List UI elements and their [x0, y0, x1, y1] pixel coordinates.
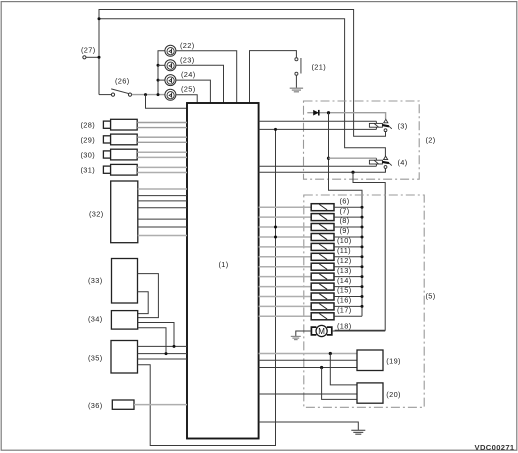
svg-text:(8): (8) — [340, 216, 350, 225]
wire unit33 pin1 to unit34 — [138, 274, 159, 318]
sensor S28 — [103, 119, 137, 130]
solenoid SV12 — [311, 263, 334, 270]
wire solenoid SV11 to bus — [334, 256, 362, 258]
junction relay4 coil feed — [327, 157, 330, 160]
junction diode output — [327, 111, 330, 114]
wire diode feed gray — [307, 113, 385, 119]
ground for switch 21 — [290, 88, 303, 92]
wire ECU to relay4 bottom contact — [259, 168, 386, 172]
wire solenoid SV6 to bus — [334, 206, 362, 208]
wire bus stub to lamp 24 — [158, 79, 165, 81]
wire sensor28 a — [137, 122, 187, 124]
wire sensor28 b — [137, 127, 187, 129]
solenoid SV6 — [311, 204, 334, 211]
relay R3 — [369, 119, 391, 131]
wire sensor29 a — [137, 136, 187, 138]
wire unit35 pin4 long loop to relay R3 net — [138, 129, 276, 445]
junction 34/35 a — [173, 345, 176, 348]
solenoid SV10 — [311, 243, 334, 250]
wire ECU to solenoid SV7 — [259, 216, 312, 218]
wire relay4 movable contact down — [385, 168, 387, 172]
svg-text:(34): (34) — [88, 315, 103, 324]
wire solenoid SV17 to bus — [334, 315, 362, 317]
svg-text:(28): (28) — [81, 121, 96, 130]
svg-text:(29): (29) — [81, 135, 96, 144]
wire sensor29 b — [137, 141, 187, 143]
svg-text:(31): (31) — [81, 166, 96, 175]
lamp L22 — [165, 45, 176, 56]
wire block32 pin6 — [138, 226, 187, 228]
wire block32 pin7 — [138, 235, 187, 237]
wire unit35 pin3 to ECU — [138, 358, 188, 360]
wire ECU to solenoid SV14 — [259, 286, 312, 288]
junction on second feed at x99 — [98, 17, 101, 20]
wire solenoid SV15 to bus — [334, 296, 362, 298]
svg-text:M: M — [318, 327, 325, 336]
junction lamp bus bottom — [157, 93, 160, 96]
junction bus row 12 — [361, 265, 364, 268]
wire ECU to solenoid SV11 — [259, 256, 312, 258]
wire block32 pin1 — [138, 188, 187, 190]
ECU block U1 — [187, 103, 259, 439]
wire lamp24 to ECU top pin — [176, 80, 210, 103]
junction 34/35 b — [165, 352, 168, 355]
svg-text:(32): (32) — [89, 210, 104, 219]
lamp L24 — [165, 75, 176, 86]
wire unit33 pin2 to unit34 — [138, 292, 149, 314]
wire ECU to relay3 coil frame top — [259, 120, 377, 122]
svg-text:(35): (35) — [88, 353, 103, 362]
wire branch down to sensor 20 bottom — [322, 368, 357, 400]
wire diode branch down to solenoid bus — [329, 113, 363, 317]
wire solenoid SV8 to bus — [334, 226, 362, 228]
junction terminal 27 — [98, 56, 101, 59]
wire lamp25 to ECU top pin — [176, 95, 197, 103]
ground for motor — [291, 336, 301, 339]
svg-text:(17): (17) — [337, 306, 352, 315]
ground for ECU — [351, 430, 365, 434]
wire sensor31 b — [137, 172, 187, 174]
wire unit34 pin3 down to node on 35a — [138, 323, 174, 347]
wire into switch 26 — [99, 94, 112, 96]
svg-text:(18): (18) — [337, 321, 352, 330]
wire ECU to relay4 coil frame bottom — [259, 165, 377, 167]
wire second feed to relay R4 upper contact — [99, 19, 385, 157]
lamp L25 — [165, 89, 176, 100]
svg-text:(16): (16) — [337, 296, 352, 305]
solenoid SV16 — [311, 303, 334, 310]
wire ECU to sensor 20 mid — [259, 393, 357, 395]
connector block 32 — [111, 181, 138, 243]
wire switch output to ECU left pin — [146, 95, 188, 109]
svg-text:(12): (12) — [337, 256, 352, 265]
junction bus row 14 — [361, 285, 364, 288]
junction motor branch — [351, 171, 354, 174]
switch SW26 — [111, 89, 131, 96]
junction bus row 9 — [361, 236, 364, 239]
solenoid SV14 — [311, 283, 334, 290]
junction to ECU pin — [144, 93, 147, 96]
wire relay4 coil feed gray — [329, 157, 377, 159]
wire ECU to solenoid SV10 — [259, 246, 312, 248]
svg-text:(5): (5) — [426, 292, 436, 301]
svg-text:(15): (15) — [337, 286, 352, 295]
svg-text:(30): (30) — [81, 151, 96, 160]
wire ECU to solenoid SV13 — [259, 276, 312, 278]
unit 35 — [111, 341, 138, 374]
solenoid SV11 — [311, 253, 334, 260]
relay R4 coil frame right side — [375, 158, 377, 166]
wire switch 21 to ground — [295, 75, 297, 88]
svg-text:(9): (9) — [340, 226, 350, 235]
junction long-loop row9 — [274, 236, 277, 239]
junction bus row 16 — [361, 305, 364, 308]
unit 34 — [111, 311, 137, 330]
relay R4 — [369, 156, 391, 168]
svg-text:(13): (13) — [337, 266, 352, 275]
solenoid SV17 — [311, 313, 334, 320]
junction bus row 10 — [361, 245, 364, 248]
wire block32 pin4 — [138, 207, 187, 209]
sensor box 19 — [357, 350, 383, 371]
wire ECU to solenoid SV15 — [259, 296, 312, 298]
solenoid SV9 — [311, 234, 334, 241]
wire ECU to solenoid SV6 — [259, 206, 312, 208]
wire sensor30 a — [137, 151, 187, 153]
wire unit35 pin2 to ECU — [138, 353, 188, 355]
svg-text:(23): (23) — [180, 56, 195, 65]
svg-text:(27): (27) — [81, 46, 96, 55]
wire ECU to solenoid SV8 — [259, 226, 312, 228]
junction lamp bus 24 — [157, 79, 160, 82]
svg-text:(2): (2) — [426, 136, 436, 145]
wire solenoid SV12 to bus — [334, 266, 362, 268]
lamp bus vertical — [158, 51, 165, 95]
wire lamp23 to ECU top pin — [176, 65, 224, 103]
wire ECU to solenoid SV12 — [259, 266, 312, 268]
wire motor right to relay4 branch — [332, 330, 385, 332]
wire ECU top pin to switch 21 — [250, 51, 297, 103]
wire ECU to solenoid SV9 — [259, 236, 312, 238]
wire ECU to solenoid SV16 — [259, 305, 312, 307]
svg-text:(33): (33) — [88, 276, 103, 285]
lamp L23 — [165, 60, 176, 71]
junction bus row 15 — [361, 295, 364, 298]
wire solenoid SV10 to bus — [334, 246, 362, 248]
svg-text:(10): (10) — [337, 236, 352, 245]
svg-text:(24): (24) — [181, 70, 196, 79]
wire unit35 pin1 to ECU — [138, 345, 188, 347]
wire ECU to sensor 19 mid — [259, 359, 357, 361]
sensor S30 — [103, 149, 137, 160]
svg-text:(7): (7) — [340, 206, 350, 215]
solenoid SV7 — [311, 214, 334, 221]
svg-text:(6): (6) — [340, 196, 350, 205]
wire bus stub to lamp 23 — [158, 64, 165, 66]
solenoid SV8 — [311, 224, 334, 231]
wire block32 pin5 — [138, 218, 187, 220]
junction long-loop row8 — [274, 226, 277, 229]
wire unit34 pin4 down to node on 35b — [138, 328, 166, 354]
wire lamp22 to ECU top pin — [176, 51, 237, 103]
switch SW21 — [295, 58, 301, 76]
wire ECU to relay3 coil frame bottom — [259, 128, 377, 130]
solenoid SV15 — [311, 293, 334, 300]
wire terminal 27 stub — [86, 56, 99, 58]
unit 33 — [112, 259, 138, 304]
wire sensor31 a — [137, 166, 187, 168]
wire solenoid SV14 to bus — [334, 286, 362, 288]
relay R3 coil frame right side — [375, 121, 377, 129]
sensor box 20 — [357, 383, 383, 403]
junction bus row 13 — [361, 275, 364, 278]
wire ECU to sensor 19 bottom — [259, 367, 357, 369]
valve box (5) dash-dot — [304, 195, 424, 407]
svg-text:(3): (3) — [398, 121, 408, 130]
svg-text:(1): (1) — [219, 260, 229, 269]
wire solenoid SV16 to bus — [334, 305, 362, 307]
wire solenoid SV13 to bus — [334, 276, 362, 278]
svg-text:(26): (26) — [115, 77, 130, 86]
sensor S31 — [103, 164, 137, 175]
svg-text:(36): (36) — [88, 401, 103, 410]
wire branch down to sensor 20 top — [330, 354, 357, 385]
wire connector36 to ECU — [134, 404, 187, 406]
connector 36 — [112, 400, 134, 409]
diode D1 — [313, 110, 319, 116]
wire motor left to ground — [296, 331, 312, 336]
svg-text:VDC00271: VDC00271 — [475, 443, 515, 452]
svg-text:(14): (14) — [337, 276, 352, 285]
junction sensor19 bottom branch — [320, 366, 323, 369]
svg-text:(19): (19) — [386, 357, 401, 366]
wire solenoid SV7 to bus — [334, 216, 362, 218]
svg-text:(21): (21) — [312, 62, 327, 71]
junction lamp bus 23 — [157, 64, 160, 67]
wire sensor30 b — [137, 156, 187, 158]
junction sensor19 top branch — [329, 352, 332, 355]
svg-text:(20): (20) — [386, 390, 401, 399]
wire top feed from node B1 to relay R3 lower contact — [99, 10, 386, 137]
svg-text:(4): (4) — [398, 158, 408, 167]
svg-text:(11): (11) — [337, 246, 351, 255]
pump motor M18 — [311, 325, 331, 336]
wire block32 pin2 — [138, 195, 187, 197]
solenoid SV13 — [311, 273, 334, 280]
junction bus row 11 — [361, 255, 364, 258]
junction bus row 8 — [361, 226, 364, 229]
wire solenoid SV9 to bus — [334, 236, 362, 238]
sensor S29 — [103, 134, 137, 145]
junction bus row 6 — [361, 206, 364, 209]
wire ECU ground line — [259, 422, 359, 430]
wire ECU to sensor 19 top (gray) — [259, 353, 357, 355]
wire switch 26 output to lamp bus — [132, 94, 165, 96]
junction bus row 7 — [361, 216, 364, 219]
relay box (2) dash-dot — [304, 101, 420, 179]
wire motor branch from junction down to motor — [335, 172, 386, 330]
terminal (27) — [83, 56, 86, 59]
wire ECU to solenoid SV17 — [259, 315, 312, 317]
svg-text:(22): (22) — [180, 41, 195, 50]
wire block32 pin3 — [138, 200, 187, 202]
junction long loop on relay3 wire — [274, 128, 277, 131]
svg-text:(25): (25) — [181, 85, 196, 94]
